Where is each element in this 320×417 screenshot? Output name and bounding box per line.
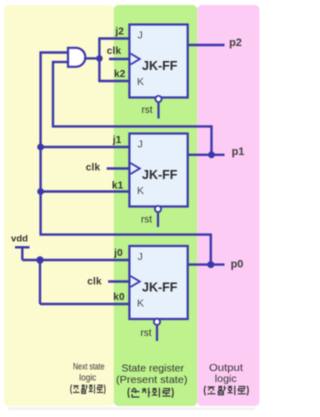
node: j1 tap <box>37 144 44 151</box>
region: State register band <box>114 5 197 406</box>
svg-text:J: J <box>138 139 143 151</box>
svg-text:J: J <box>138 251 143 263</box>
svg-text:k2: k2 <box>114 69 126 80</box>
wire: p2 output <box>188 44 225 46</box>
svg-text:JK-FF: JK-FF <box>142 281 178 295</box>
svg-text:vdd: vdd <box>11 234 28 245</box>
flip-flop U4 (bottom, JK-FF) box <box>129 246 187 319</box>
rst bubble U4 <box>154 319 160 325</box>
region: Output logic band <box>197 5 259 406</box>
svg-text:p0: p0 <box>231 259 244 271</box>
svg-text:rst: rst <box>141 215 152 226</box>
wire: vdd drop <box>21 246 23 260</box>
wire: p1 output <box>188 154 225 156</box>
svg-text:State register: State register <box>122 362 185 374</box>
svg-text:p1: p1 <box>232 146 245 158</box>
clock triangle U2 <box>131 54 140 65</box>
svg-text:K: K <box>137 185 144 197</box>
svg-text:JK-FF: JK-FF <box>142 59 178 73</box>
svg-text:clk: clk <box>87 277 102 288</box>
svg-text:rst: rst <box>141 105 152 116</box>
node: p0 junction <box>207 261 214 268</box>
flip-flop U2 (top, JK-FF) box <box>129 25 187 98</box>
svg-text:Next state: Next state <box>73 361 105 372</box>
svg-text:k0: k0 <box>113 292 125 303</box>
wire: q0 feedback vertical to p0 node <box>210 234 212 265</box>
rst bubble U3 <box>155 206 161 212</box>
vdd supply symbol <box>15 246 30 248</box>
clock triangle U3 <box>131 163 140 174</box>
wire: q1 feedback vertical to p1 node <box>210 125 212 155</box>
svg-text:(Present state): (Present state) <box>116 374 188 386</box>
region: Next state logic band <box>4 5 114 406</box>
svg-text:clk: clk <box>107 46 122 57</box>
wire: clk stub FF0 <box>108 280 130 282</box>
wire: j1 stub <box>41 146 131 148</box>
wire: j2 stub <box>98 37 130 39</box>
svg-text:j0: j0 <box>113 248 123 259</box>
node: AND output junction <box>96 55 103 62</box>
caption: (순차회로) green band korean <box>128 388 173 398</box>
svg-text:logic: logic <box>79 373 96 384</box>
caption: (조합회로) pink band korean <box>204 386 248 396</box>
wire: rst U3 <box>157 212 159 227</box>
wire: rst U4 <box>156 325 158 341</box>
wire: q1 feedback horizontal <box>52 125 212 127</box>
wire: k1 stub <box>41 190 131 192</box>
wire: k0 stub <box>40 303 130 305</box>
svg-text:p2: p2 <box>229 37 242 49</box>
wire: rst U2 <box>157 102 159 118</box>
wire: k0 branch vertical <box>39 260 41 304</box>
svg-text:k1: k1 <box>112 181 124 192</box>
svg-text:K: K <box>137 298 144 310</box>
svg-text:j2: j2 <box>114 27 124 38</box>
wire: p0 output <box>188 263 225 265</box>
wire: q1 vertical from AND input <box>52 61 54 127</box>
caption: (조합회로) yellow band korean <box>71 385 105 395</box>
wire: k2 stub <box>98 80 130 82</box>
svg-text:j1: j1 <box>112 135 122 146</box>
wire: j0 line <box>22 259 130 261</box>
node: vdd j0/k0 junction <box>36 256 43 263</box>
wire: q0 vertical bus (AND input to feedback corner) <box>39 51 41 234</box>
svg-text:rst: rst <box>140 328 151 339</box>
svg-text:logic: logic <box>215 373 237 385</box>
wire: clk stub FF2 <box>109 58 130 60</box>
clock triangle U4 <box>131 276 140 287</box>
wire: q0 feedback horizontal <box>40 233 211 235</box>
svg-text:JK-FF: JK-FF <box>142 168 178 182</box>
wire: AND upper input segment <box>41 51 68 53</box>
wire: clk stub FF1 <box>107 167 131 169</box>
svg-text:J: J <box>138 30 143 42</box>
rst bubble U2 <box>155 96 161 102</box>
and-gate U1 <box>68 48 85 67</box>
node: k1 tap <box>37 188 44 195</box>
wire: AND lower input segment <box>53 61 68 63</box>
svg-text:clk: clk <box>86 163 101 174</box>
svg-text:K: K <box>137 76 144 88</box>
flip-flop U3 (middle, JK-FF) box <box>129 134 187 207</box>
node: p1 junction <box>208 151 215 158</box>
wire: AND output <box>85 57 100 59</box>
wire: j2/k2 branch vertical <box>98 39 100 82</box>
